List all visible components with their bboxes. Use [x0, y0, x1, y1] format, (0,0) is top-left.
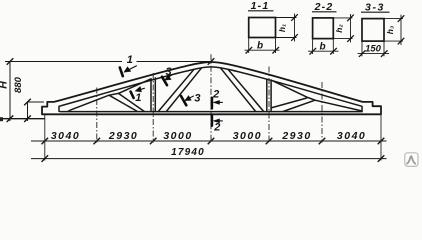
diagonal D4 upper edge	[271, 98, 307, 108]
axis line node 1	[96, 88, 98, 143]
post P2 right edge	[270, 80, 272, 112]
bottom reference line at support	[0, 118, 45, 120]
h3 extension lines	[384, 18, 403, 20]
row2 tick right	[378, 155, 385, 162]
arrow cut 1 upper	[128, 66, 137, 71]
svg-text:3040: 3040	[337, 130, 366, 142]
ticks h3	[398, 15, 405, 22]
diagonal D3 left edge	[221, 68, 256, 111]
section square 3-3	[362, 19, 384, 41]
bottom chord top edge	[60, 111, 362, 113]
arrow cut 3 lower	[188, 96, 194, 99]
arrow cut 2 lower	[217, 120, 223, 122]
tick 880 bottom	[24, 115, 31, 122]
ticks b	[246, 47, 253, 54]
svg-text:h₂: h₂	[334, 24, 344, 33]
svg-text:2: 2	[212, 89, 219, 101]
svg-text:2: 2	[213, 121, 220, 133]
svg-text:3000: 3000	[233, 130, 262, 142]
truss outline (elevation of segmental truss)	[42, 62, 381, 114]
880 dimension vertical line	[27, 102, 29, 121]
section square 2-2	[313, 18, 334, 39]
axis line node 5	[321, 82, 323, 143]
diagonal D1 right edge	[119, 93, 145, 111]
arrow cut 1 lower	[139, 88, 145, 90]
row1 tick x=269	[266, 138, 273, 145]
150 dimension line	[358, 53, 390, 55]
ticks h2	[347, 15, 354, 22]
svg-text:3040: 3040	[51, 130, 80, 142]
tick H top	[7, 58, 14, 65]
svg-text:h₃: h₃	[385, 26, 395, 35]
haunch line right	[271, 80, 361, 111]
axis line midspan	[210, 54, 212, 142]
extension line left end	[44, 115, 46, 161]
svg-text:3: 3	[166, 66, 172, 78]
row1 tick x=153	[150, 138, 157, 145]
dimension row line 2	[31, 158, 387, 160]
scan edge artifact	[0, 117, 3, 121]
row1 tick x=211	[208, 138, 215, 145]
top chord underside line	[59, 67, 362, 111]
arrow cut 2 upper	[217, 101, 223, 103]
cut mark 1-1 upper stroke	[120, 68, 123, 77]
axis line node 4 / post P2	[268, 67, 270, 143]
svg-text:150: 150	[365, 44, 382, 55]
section detail 1-1	[245, 0, 298, 53]
ticks h1	[291, 14, 298, 21]
axis line node 2 / post P1	[152, 73, 154, 143]
extension line right end	[380, 106, 382, 160]
diagonal D2 right edge	[166, 68, 201, 111]
haunch line left	[68, 79, 151, 112]
svg-text:1: 1	[127, 54, 133, 66]
row1 tick x=97	[94, 138, 101, 145]
svg-text:b: b	[257, 41, 263, 52]
post P1 right edge	[154, 78, 156, 112]
tick H at apex	[208, 58, 215, 65]
watermark badge	[405, 153, 418, 167]
b extension lines	[312, 39, 314, 54]
section detail 3-3	[358, 2, 405, 57]
880 top reference line	[28, 101, 45, 103]
cut mark 3-3 lower stroke	[181, 96, 186, 105]
diagonal D3 right edge	[228, 69, 264, 111]
tick H bottom	[7, 115, 14, 122]
svg-text:H: H	[0, 81, 10, 89]
cut mark 2-2 upper stroke	[211, 98, 214, 109]
tick 880 top	[24, 99, 31, 106]
diagonal D2 left edge	[158, 69, 194, 111]
post P2 left edge	[266, 79, 268, 111]
150 extension lines	[361, 41, 363, 56]
b dimension line	[245, 49, 280, 51]
svg-text:880: 880	[13, 76, 24, 93]
svg-text:h₁: h₁	[277, 24, 287, 32]
b extension lines	[248, 38, 250, 54]
h2 extension lines	[333, 17, 352, 19]
row1 tick x=381	[378, 138, 385, 145]
H dimension top reference line	[5, 61, 122, 63]
row1 tick x=322	[319, 138, 326, 145]
svg-text:2930: 2930	[108, 130, 138, 142]
h1 dimension line	[294, 14, 296, 42]
post P1 left edge	[150, 79, 152, 112]
svg-text:1: 1	[135, 92, 141, 104]
diagonal D4 lower edge	[283, 100, 315, 111]
row2 tick left	[42, 155, 49, 162]
svg-text:3: 3	[194, 92, 200, 104]
arrow cut 3 upper	[167, 75, 172, 78]
h3 dimension line	[400, 15, 402, 45]
h1 extension lines	[276, 17, 297, 19]
diagonal D1 left edge	[109, 95, 138, 111]
svg-text:17940: 17940	[171, 147, 205, 158]
H dimension vertical line	[9, 62, 11, 122]
svg-text:b: b	[319, 42, 325, 53]
b dimension line	[308, 50, 339, 52]
cut mark 1-1 lower stroke	[131, 92, 134, 98]
h2 dimension line	[350, 14, 352, 43]
cut mark 3-3 upper stroke	[162, 77, 167, 85]
section square 1-1	[249, 18, 276, 38]
ticks 150	[359, 50, 366, 57]
section detail 2-2	[308, 1, 354, 54]
row1 tick x=45	[42, 138, 49, 145]
dimension row line 1	[31, 140, 387, 142]
cut mark 2-2 lower stroke	[211, 115, 214, 125]
svg-text:2930: 2930	[281, 130, 311, 142]
svg-text:3000: 3000	[163, 130, 192, 142]
ticks b	[310, 48, 317, 55]
